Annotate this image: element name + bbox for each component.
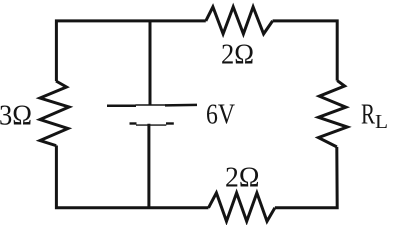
svg-text:L: L	[375, 111, 388, 133]
resistor 3ohm left	[40, 81, 69, 146]
battery V1 top plate right	[165, 104, 197, 107]
wire right wire lower and bottom-right segment	[275, 147, 337, 208]
battery V1 bottom plate right tick	[166, 122, 174, 124]
wire middle branch upper	[149, 21, 152, 105]
resistor 2ohm top	[206, 7, 273, 34]
svg-text:2Ω: 2Ω	[221, 39, 254, 71]
resistor 2ohm bottom	[209, 193, 275, 221]
wire top-left segment and left wire upper	[56, 21, 205, 81]
battery V1 bottom plate left tick	[130, 122, 137, 124]
wire bottom-left segment and left wire lower	[56, 146, 208, 208]
svg-text:6V: 6V	[206, 99, 235, 131]
battery V1 top plate left	[107, 104, 136, 107]
svg-text:R: R	[361, 99, 375, 131]
svg-text:2Ω: 2Ω	[225, 161, 260, 193]
wire middle branch lower	[147, 124, 150, 208]
resistor RL	[318, 81, 347, 147]
wire top-right segment and right wire upper	[273, 21, 338, 81]
battery V1 bottom plate middle	[136, 124, 166, 126]
svg-text:3Ω: 3Ω	[0, 99, 32, 131]
battery V1 top plate middle	[136, 104, 166, 106]
